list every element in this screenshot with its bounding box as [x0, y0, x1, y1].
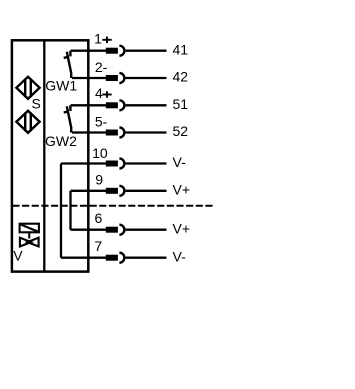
svg-text:7: 7	[94, 238, 102, 254]
svg-text:2-: 2-	[95, 59, 108, 75]
switch contact GW1	[64, 51, 71, 78]
sensor diamond symbol 1	[16, 77, 39, 99]
wire pin 10 left segment	[61, 162, 107, 164]
connector plug pin 9	[106, 188, 118, 194]
connector plug pin 7	[106, 255, 118, 261]
connector socket arc pin 7	[119, 253, 124, 263]
wire pin 9 left segment	[71, 190, 107, 192]
wire pin 5- right segment	[126, 131, 167, 133]
sensor diamond symbol 2	[16, 111, 39, 133]
wire pin 7 left segment	[61, 257, 107, 259]
connector plug pin 6	[106, 227, 118, 233]
connector plug pin 4+	[106, 102, 118, 108]
device outline box	[12, 40, 88, 271]
connector plug pin 1+	[106, 48, 118, 54]
wire vertical pin 9 to pin 6	[69, 191, 71, 230]
wire pin 5- left segment	[72, 131, 107, 133]
connector plug pin 5-	[106, 130, 118, 136]
svg-text:5-: 5-	[95, 114, 108, 130]
wire pin 4+ left segment	[71, 104, 107, 106]
dashed separation line	[12, 205, 212, 207]
connector socket arc pin 6	[119, 225, 124, 235]
solenoid valve symbol V	[20, 224, 39, 247]
wire pin 2- left segment	[72, 77, 107, 79]
wire pin 1+ right segment	[126, 50, 167, 52]
connector socket arc pin 5-	[119, 128, 124, 138]
svg-text:41: 41	[173, 41, 189, 57]
wire pin 9 right segment	[126, 190, 167, 192]
svg-text:9: 9	[95, 172, 103, 188]
connector socket arc pin 1+	[119, 46, 124, 56]
wire pin 10 right segment	[126, 162, 167, 164]
svg-text:52: 52	[173, 123, 189, 139]
wire pin 6 right segment	[126, 229, 167, 231]
wire pin 1+ left segment	[71, 50, 107, 52]
wire pin 7 right segment	[126, 257, 167, 259]
wire pin 6 left segment	[71, 229, 107, 231]
wire vertical pin 10 to pin 7	[60, 164, 62, 258]
connector plug pin 2-	[106, 75, 118, 81]
svg-text:10: 10	[92, 145, 108, 161]
svg-text:V: V	[13, 247, 23, 263]
svg-text:42: 42	[173, 69, 189, 85]
inner divider line	[43, 40, 45, 271]
connector socket arc pin 4+	[119, 100, 124, 110]
wire pin 2- right segment	[126, 77, 167, 79]
connector socket arc pin 10	[119, 159, 124, 169]
svg-text:GW1: GW1	[45, 78, 77, 94]
svg-text:1: 1	[94, 31, 102, 47]
svg-text:S: S	[32, 95, 41, 111]
svg-text:4: 4	[95, 85, 103, 101]
svg-text:V+: V+	[173, 182, 191, 198]
connector socket arc pin 9	[119, 186, 124, 196]
connector plug pin 10	[106, 161, 118, 167]
svg-text:V+: V+	[173, 220, 191, 236]
svg-text:V-: V-	[173, 154, 187, 170]
svg-text:V-: V-	[173, 248, 187, 264]
svg-text:51: 51	[173, 96, 189, 112]
wire pin 4+ right segment	[126, 104, 167, 106]
switch contact GW2	[64, 105, 71, 132]
svg-text:GW2: GW2	[45, 133, 77, 149]
connector socket arc pin 2-	[119, 73, 124, 83]
svg-text:6: 6	[95, 210, 103, 226]
